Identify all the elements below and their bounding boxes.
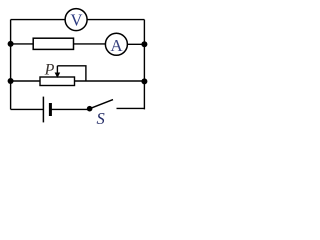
wire: right rail (top-right corner down to bottom-right corner)	[143, 20, 145, 110]
wire: row 2, left rail to resistor	[11, 43, 34, 45]
switch S blade (open)	[90, 100, 113, 109]
svg-text:P: P	[44, 61, 55, 78]
wire: row 3, rheostat to right rail	[75, 80, 145, 82]
wire: switch contact to right rail	[117, 107, 145, 109]
junction dot: left rail / row 2	[8, 41, 14, 47]
label P	[44, 61, 55, 78]
label S	[97, 109, 105, 128]
wire: row 2, ammeter to right rail	[127, 43, 144, 45]
wire: battery to switch	[50, 108, 89, 110]
ammeter A	[105, 33, 127, 55]
voltmeter V	[65, 9, 87, 31]
wire: top row, voltmeter to right rail	[87, 19, 144, 21]
junction dot: left rail / row 3	[8, 78, 14, 84]
wire: bottom row, left rail to battery	[11, 108, 44, 110]
wire: row 3, left rail to rheostat	[11, 80, 40, 82]
junction dot: right rail / row 2	[141, 41, 147, 47]
rheostat P slider arrow	[55, 66, 61, 78]
battery cell: long positive plate	[42, 97, 44, 123]
svg-text:S: S	[97, 109, 105, 128]
wire: rheostat slider to row 3 (up over and down)	[57, 66, 86, 81]
svg-text:V: V	[70, 10, 82, 29]
wire: bottom row right corner segment	[143, 108, 145, 110]
wire: top row, left rail to voltmeter	[11, 19, 66, 21]
svg-text:A: A	[110, 36, 123, 55]
resistor R	[33, 38, 73, 49]
battery cell: short negative plate	[49, 103, 52, 116]
wire: row 2, resistor to ammeter	[74, 43, 106, 45]
switch S pivot dot	[87, 106, 93, 112]
junction dot: right rail / row 3	[141, 78, 147, 84]
wire: left rail (top-left corner down to bottom-left corner)	[10, 20, 12, 110]
rheostat P (resistance body)	[40, 77, 75, 86]
